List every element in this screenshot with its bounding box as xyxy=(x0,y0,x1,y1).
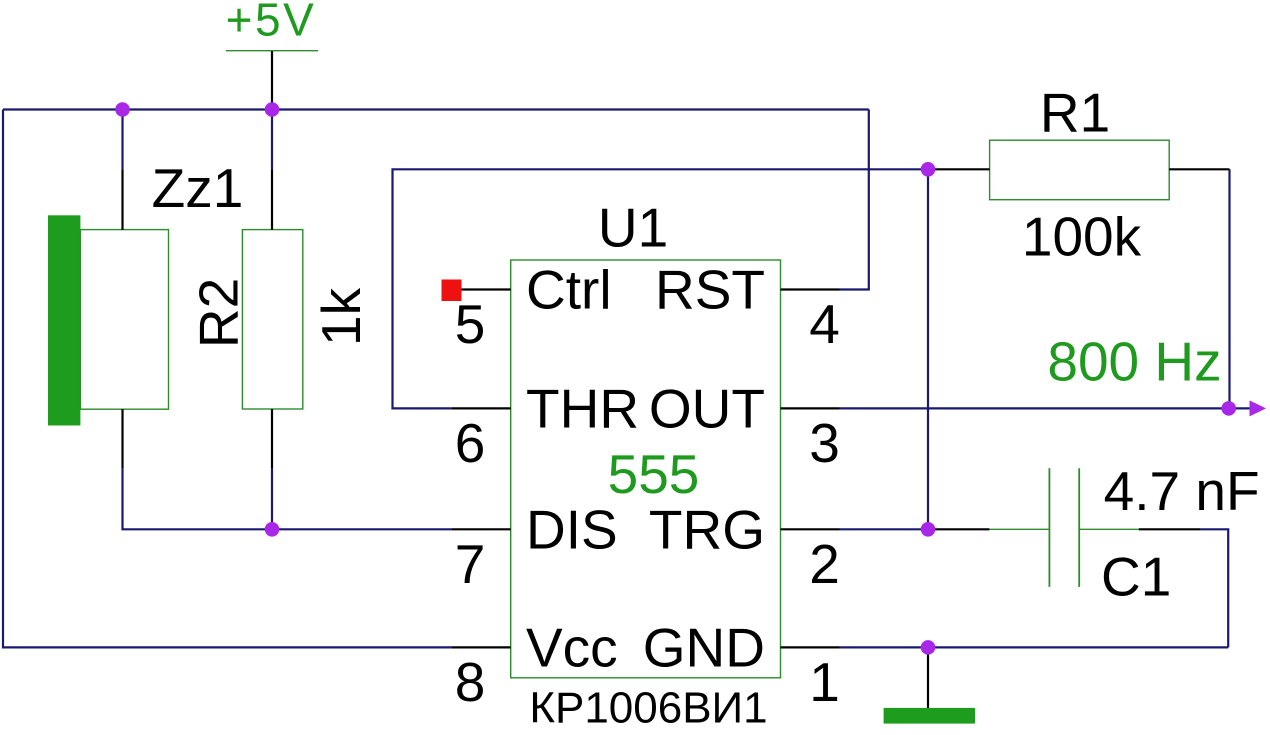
pin 6 THR stub xyxy=(452,407,511,409)
no-connect marker pin 5 xyxy=(442,280,462,302)
svg-text:7: 7 xyxy=(455,533,486,595)
wire RST riser xyxy=(840,110,869,290)
wire +5V stem xyxy=(271,51,273,110)
pin C1 left xyxy=(929,528,989,530)
resistor R2 xyxy=(242,230,302,409)
pin R1 left xyxy=(929,168,990,170)
pin 8 Vcc stub xyxy=(452,646,511,648)
pin 1 GND stub xyxy=(781,646,840,648)
wire node to DIS xyxy=(272,528,452,530)
node bus-R2 xyxy=(265,102,280,117)
node OUT-R1 xyxy=(1221,401,1236,416)
svg-text:GND: GND xyxy=(643,616,765,678)
svg-text:RST: RST xyxy=(655,259,765,321)
svg-text:555: 555 xyxy=(608,443,700,505)
pin Zz1 bottom xyxy=(121,409,123,468)
svg-text:5: 5 xyxy=(455,293,486,355)
wire Zz1 top xyxy=(121,110,123,171)
svg-text:800 Hz: 800 Hz xyxy=(1047,331,1221,393)
pin C1 right xyxy=(1139,528,1200,530)
pin 4 RST stub xyxy=(781,288,840,290)
wire Zz1 bottom to node xyxy=(123,468,273,529)
capacitor C1 left plate xyxy=(1048,468,1050,587)
svg-text:6: 6 xyxy=(455,412,486,474)
wire R2 bottom xyxy=(271,468,273,529)
svg-text:OUT: OUT xyxy=(649,377,765,439)
svg-text:100k: 100k xyxy=(1022,205,1142,267)
svg-text:2: 2 xyxy=(809,533,840,595)
wire THR loop xyxy=(393,169,929,408)
node GND-ground xyxy=(921,640,936,655)
svg-text:Vcc: Vcc xyxy=(526,616,618,678)
svg-text:8: 8 xyxy=(455,651,486,713)
wire left drop to Vcc xyxy=(3,110,452,648)
power symbol +5V bar xyxy=(226,50,318,52)
output arrow xyxy=(1250,400,1267,416)
svg-text:TRG: TRG xyxy=(649,498,765,560)
op-amp U1 555 body xyxy=(511,260,781,678)
svg-text:+5V: +5V xyxy=(226,0,317,46)
svg-text:4.7 nF: 4.7 nF xyxy=(1104,460,1260,522)
svg-text:Ctrl: Ctrl xyxy=(526,259,612,321)
wire ground drop xyxy=(927,647,929,708)
pin 5 Ctrl stub xyxy=(452,288,511,290)
svg-text:C1: C1 xyxy=(1101,546,1171,608)
svg-text:4: 4 xyxy=(809,293,840,355)
resistor R1 xyxy=(990,140,1170,200)
svg-text:3: 3 xyxy=(809,412,840,474)
svg-text:Zz1: Zz1 xyxy=(152,157,244,219)
node THR-R1 xyxy=(921,162,936,177)
pin 7 DIS stub xyxy=(452,528,511,530)
wire +5V bus xyxy=(3,108,869,110)
pin 3 OUT stub xyxy=(781,407,840,409)
svg-text:1: 1 xyxy=(809,651,840,713)
node TRG-C1 xyxy=(921,522,936,537)
svg-text:КР1006ВИ1: КР1006ВИ1 xyxy=(529,683,767,732)
wire OUT to output xyxy=(840,407,1250,409)
capacitor C1 right plate xyxy=(1078,468,1080,587)
capacitor C1 left lead xyxy=(989,528,1049,530)
svg-text:R2: R2 xyxy=(188,278,250,348)
node bus-Zz1 xyxy=(115,102,130,117)
pin R1 right xyxy=(1169,168,1229,170)
wire mid riser THR-TRG xyxy=(927,169,929,529)
pin R2 top xyxy=(271,170,273,230)
node R2-DIS xyxy=(265,522,280,537)
wire GND run xyxy=(840,646,1229,648)
svg-text:R1: R1 xyxy=(1040,81,1110,143)
svg-text:1k: 1k xyxy=(310,287,372,346)
wire C1 right drop xyxy=(1200,529,1228,647)
ground bar xyxy=(884,708,975,724)
pin R2 bottom xyxy=(271,409,273,468)
buzzer Zz1 plate xyxy=(48,215,80,425)
svg-text:DIS: DIS xyxy=(526,498,618,560)
pin Zz1 top xyxy=(121,170,123,230)
wire R2 top xyxy=(271,110,273,171)
pin 2 TRG stub xyxy=(781,528,840,530)
wire TRG to node xyxy=(840,528,929,530)
svg-text:U1: U1 xyxy=(598,196,668,258)
buzzer Zz1 body xyxy=(80,230,168,410)
wire R1 right drop xyxy=(1228,169,1230,408)
svg-text:THR: THR xyxy=(526,377,639,439)
capacitor C1 right lead xyxy=(1079,528,1139,530)
